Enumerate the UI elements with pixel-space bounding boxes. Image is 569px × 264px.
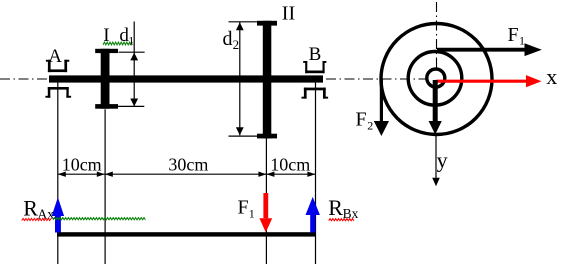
circle view: outer pulley circle <box>381 24 492 135</box>
label R_Bx <box>328 195 358 221</box>
svg-text:1: 1 <box>128 33 134 47</box>
label F1 (circle view) <box>508 24 526 48</box>
red squiggle under R_Bx <box>329 219 354 221</box>
svg-text:10cm: 10cm <box>270 155 310 175</box>
extension line at pulley I <box>104 109 106 264</box>
red squiggle under R_Ax <box>22 218 51 220</box>
svg-text:10cm: 10cm <box>62 155 102 175</box>
svg-text:F: F <box>356 109 367 131</box>
shaft <box>49 75 323 82</box>
dimension d1 <box>115 22 145 107</box>
force F1 arrow (circle view) <box>437 43 542 56</box>
extension line at bearing B <box>315 83 317 264</box>
svg-text:R: R <box>23 196 38 221</box>
y axis line with arrow <box>432 136 440 186</box>
dimension 30cm I-II <box>105 155 267 177</box>
green squiggle right of R_Ax <box>53 218 145 220</box>
vertical centerline of circle view <box>436 2 438 68</box>
extension line at bearing A <box>57 83 59 264</box>
force arrow F1 on beam (red) <box>259 193 272 232</box>
svg-text:y: y <box>437 147 448 172</box>
dimension d2 <box>229 22 263 136</box>
svg-text:1: 1 <box>519 34 525 48</box>
dimension 10cm II-B <box>266 155 315 177</box>
bearing A bottom bracket <box>45 87 71 98</box>
svg-text:F: F <box>238 196 249 218</box>
dimension 10cm A-I <box>58 155 105 177</box>
pulley II <box>257 21 277 139</box>
resultant force arrow down (circle view) <box>429 80 442 135</box>
centerline right (between B and circle view) <box>326 78 428 80</box>
label d1 <box>119 25 134 48</box>
circle view: hub circle <box>427 69 445 87</box>
label F1 (beam) <box>238 196 255 220</box>
green squiggle under I d1 <box>103 42 132 45</box>
svg-text:2: 2 <box>233 37 240 52</box>
pulley I <box>95 49 118 109</box>
reaction arrow R_Bx (blue) <box>306 197 320 233</box>
svg-text:30cm: 30cm <box>168 155 208 175</box>
beam <box>57 232 315 236</box>
label d2 <box>223 28 240 52</box>
bearing A top bracket <box>46 60 69 72</box>
bearing B bottom bracket <box>302 88 329 99</box>
circle view: middle pulley circle <box>408 52 462 106</box>
x axis arrow (red) <box>436 75 542 87</box>
label F2 <box>356 109 374 133</box>
svg-text:1: 1 <box>249 207 255 221</box>
extension line at pulley II <box>265 138 267 264</box>
label R_Ax <box>23 196 54 222</box>
bearing B top bracket <box>303 61 326 73</box>
svg-text:d: d <box>223 28 233 50</box>
centerline left (shaft axis) <box>0 78 49 80</box>
svg-text:R: R <box>328 195 343 220</box>
svg-text:B: B <box>309 44 322 65</box>
svg-text:x: x <box>546 64 557 89</box>
svg-text:II: II <box>282 3 295 25</box>
svg-text:Bx: Bx <box>343 206 359 221</box>
svg-text:2: 2 <box>367 119 373 133</box>
svg-text:F: F <box>508 24 519 46</box>
force F2 arrow (circle view) <box>374 79 389 136</box>
reaction arrow R_Ax (blue) <box>52 197 64 232</box>
